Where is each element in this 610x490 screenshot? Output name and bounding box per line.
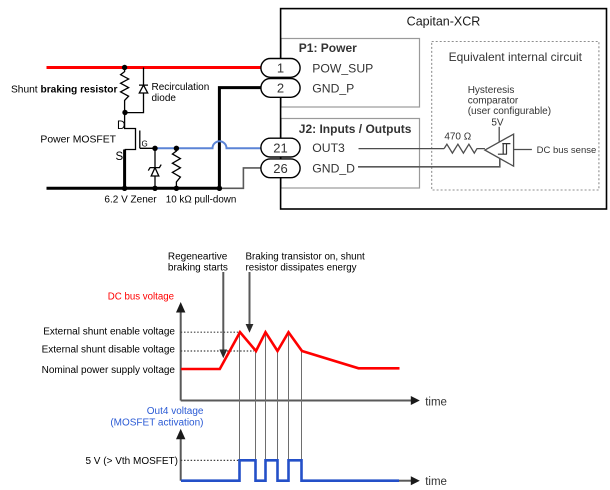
resistor shunt braking (vertical zigzag) — [121, 68, 129, 113]
axis X of DC bus chart — [181, 396, 420, 405]
svg-text:D: D — [117, 120, 125, 132]
resistor R2 470 ohm (horizontal zigzag) — [444, 144, 485, 153]
dotted level line: enable voltage — [181, 331, 240, 333]
svg-text:Nominal power supply voltage: Nominal power supply voltage — [42, 365, 176, 376]
svg-text:Equivalent internal circuit: Equivalent internal circuit — [449, 50, 583, 64]
wire OUT3 to comparator input — [359, 148, 445, 150]
junction node ground/source — [122, 186, 127, 191]
pin 1 POW_SUP — [261, 59, 300, 78]
waveform Out4 voltage (blue pulses) — [181, 460, 399, 480]
svg-text:10 kΩ pull-down: 10 kΩ pull-down — [166, 195, 237, 206]
junction node gate/zener — [152, 146, 157, 151]
svg-text:Capitan-XCR: Capitan-XCR — [407, 15, 481, 29]
svg-text:Shunt braking resistor: Shunt braking resistor — [11, 85, 118, 96]
wire 5V supply lead — [498, 127, 500, 143]
wire GND_D to circuit ground (gray) — [221, 168, 262, 188]
svg-text:resistor dissipates energy: resistor dissipates energy — [246, 263, 357, 274]
junction node gate/pull-down — [174, 146, 179, 151]
wire gate net (blue) with hop over GND wire — [155, 141, 261, 148]
wire red positive supply rail — [47, 66, 262, 69]
svg-text:5V: 5V — [491, 117, 504, 128]
junction node on red rail — [122, 65, 127, 70]
connector line peak3/pulse3 rise — [288, 333, 290, 460]
svg-text:GND_D: GND_D — [312, 162, 355, 176]
wire GND_D to comparator — [358, 159, 500, 167]
transistor Q1 power MOSFET — [125, 113, 155, 189]
box Equivalent internal circuit (dashed) — [432, 42, 599, 191]
svg-text:P1: Power: P1: Power — [299, 41, 357, 55]
svg-text:21: 21 — [273, 140, 287, 155]
connector line peak1/pulse1 rise — [239, 333, 241, 460]
annotation arrow to transistor-on peak — [246, 272, 254, 333]
label hysteresis comparator — [468, 85, 551, 117]
connector line valley1/pulse1 fall — [255, 352, 257, 460]
svg-text:26: 26 — [273, 161, 287, 176]
box Capitan-XCR — [281, 9, 607, 209]
connector line peak2/pulse2 rise — [265, 333, 267, 460]
hysteresis symbol inside comparator — [498, 144, 511, 155]
svg-text:Regeneartive: Regeneartive — [168, 252, 228, 263]
dotted level line: disable voltage — [181, 350, 254, 352]
op-amp U1 hysteresis comparator (triangle pointing left) — [485, 134, 514, 166]
waveform DC bus voltage (red) — [181, 332, 400, 369]
svg-text:J2: Inputs / Outputs: J2: Inputs / Outputs — [299, 122, 412, 136]
svg-text:(MOSFET activation): (MOSFET activation) — [110, 417, 203, 428]
annotation arrow to braking start — [219, 272, 227, 358]
axis Y of Out4 chart — [176, 429, 185, 481]
svg-text:braking starts: braking starts — [168, 263, 228, 274]
connector line valley2/pulse2 fall — [277, 352, 279, 460]
svg-text:DC bus voltage: DC bus voltage — [108, 291, 174, 302]
axis X of Out4 chart (continuation + arrow) — [399, 476, 420, 485]
svg-text:Braking transistor on, shunt: Braking transistor on, shunt — [246, 252, 366, 263]
svg-text:GND_P: GND_P — [312, 82, 354, 96]
svg-text:1: 1 — [277, 61, 284, 76]
box P1: Power group — [281, 39, 420, 108]
box J2: Inputs / Outputs group — [281, 119, 420, 189]
junction node ground/GND_P — [217, 186, 222, 191]
svg-text:2: 2 — [277, 81, 284, 96]
svg-text:time: time — [425, 396, 447, 408]
svg-text:(user configurable): (user configurable) — [468, 106, 551, 117]
junction node ground/pull-down — [174, 186, 179, 191]
pin 2 GND_P — [261, 79, 300, 98]
dotted level line: 5V — [181, 459, 239, 461]
svg-text:470 Ω: 470 Ω — [444, 132, 471, 143]
wire black GND_P rail (thick) — [47, 88, 262, 189]
junction node at MOSFET drain — [122, 110, 127, 115]
svg-text:Power MOSFET: Power MOSFET — [40, 134, 116, 145]
pin 26 GND_D — [261, 159, 300, 178]
svg-text:Out4 voltage: Out4 voltage — [147, 406, 204, 417]
svg-text:S: S — [116, 151, 124, 163]
svg-text:time: time — [425, 476, 447, 488]
svg-text:OUT3: OUT3 — [312, 141, 345, 155]
svg-text:diode: diode — [152, 93, 177, 104]
svg-text:DC bus sense: DC bus sense — [537, 145, 597, 156]
svg-text:G: G — [142, 140, 148, 149]
pin 21 OUT3 — [261, 138, 300, 157]
resistor R1 10k pull-down (vertical zigzag) — [172, 148, 180, 188]
svg-text:comparator: comparator — [468, 95, 519, 106]
diode D1 recirculation — [125, 68, 148, 113]
svg-text:Hysteresis: Hysteresis — [468, 85, 515, 96]
axis Y of DC bus chart — [176, 302, 185, 401]
svg-text:External shunt disable voltage: External shunt disable voltage — [42, 344, 176, 355]
svg-text:Recirculation: Recirculation — [152, 82, 210, 93]
diode Z1 6.2V zener — [148, 148, 161, 188]
svg-text:5 V (> Vth MOSFET): 5 V (> Vth MOSFET) — [85, 456, 178, 467]
junction node ground/zener — [152, 186, 157, 191]
svg-text:External shunt enable voltage: External shunt enable voltage — [43, 326, 175, 337]
svg-text:POW_SUP: POW_SUP — [312, 61, 373, 75]
connector line descent/pulse3 fall — [301, 352, 303, 460]
wire comparator output to DC bus sense — [514, 149, 532, 151]
svg-text:6.2 V Zener: 6.2 V Zener — [104, 195, 157, 206]
